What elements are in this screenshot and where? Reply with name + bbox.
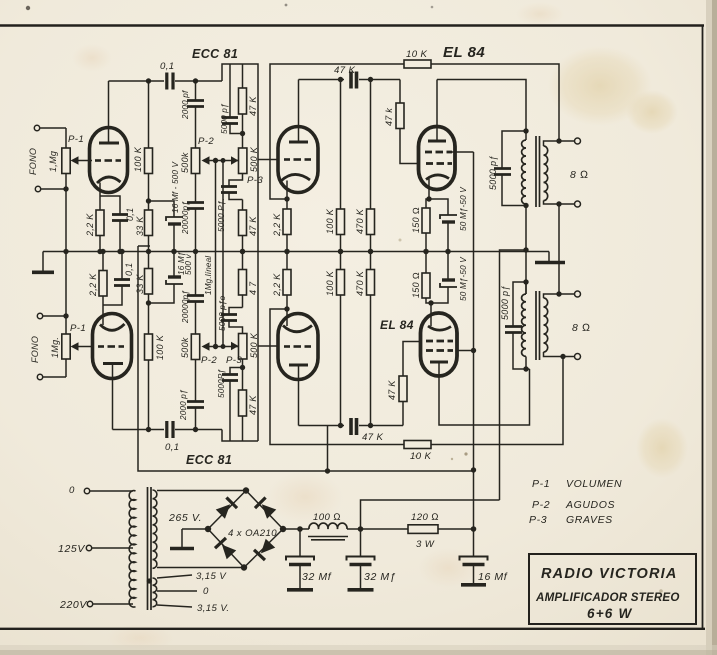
svg-text:P-1: P-1 (532, 478, 550, 490)
svg-text:5000 pƒ: 5000 pƒ (220, 103, 229, 134)
svg-text:FONO: FONO (28, 148, 38, 175)
node bridge bottom (241, 564, 247, 570)
stain center bottom (267, 471, 343, 523)
svg-text:ECC 81: ECC 81 (192, 47, 238, 61)
svg-text:P-3: P-3 (226, 355, 242, 366)
node top bus at 100K (146, 78, 151, 83)
input terminal B top (37, 313, 42, 318)
wire P-1 lower bottom (65, 359, 67, 377)
output transformer lower primary (522, 294, 526, 356)
capacitor 5000pf across primary lower (513, 282, 526, 326)
resistor 47K tone upper (242, 64, 244, 88)
svg-text:P-2: P-2 (532, 499, 550, 511)
V2b plate bus (299, 425, 345, 427)
wire P-1 bottom chain down (65, 174, 67, 335)
svg-text:16 Mf: 16 Mf (478, 571, 508, 583)
resistor 2,2K V1b cathode (99, 271, 107, 297)
primary B+ vertical between transformers (525, 206, 527, 295)
ground right (548, 252, 550, 262)
svg-text:2,2 K: 2,2 K (272, 213, 282, 237)
output transformer upper core (535, 136, 537, 207)
tube V1b ECC81 envelope (93, 314, 132, 379)
svg-text:AGUDOS: AGUDOS (565, 499, 615, 511)
power transformer T1 HT secondary winding (153, 490, 157, 568)
resistor 33K upper (145, 210, 153, 236)
ground bus (43, 251, 549, 253)
svg-text:33 K: 33 K (135, 216, 145, 236)
tube V1a anode (99, 142, 119, 145)
svg-text:2,2 K: 2,2 K (88, 273, 98, 297)
svg-text:2000 pƒ: 2000 pƒ (179, 389, 188, 421)
capacitor 16Mf 500V lower (149, 284, 175, 303)
svg-text:5000 Pƒ.: 5000 Pƒ. (217, 198, 226, 232)
tube EL84 lower grids (426, 340, 453, 343)
svg-text:AMPLIFICADOR STEREO: AMPLIFICADOR STEREO (535, 591, 680, 604)
wire grid V2a (258, 159, 278, 161)
svg-text:50 Mƒ-50 V: 50 Mƒ-50 V (459, 186, 468, 231)
stain top center (516, 2, 564, 26)
node top bus at 2000pf (193, 78, 198, 83)
svg-text:500 K: 500 K (249, 146, 259, 172)
capacitor 16Mf (473, 529, 475, 556)
node 16Mf (471, 526, 477, 532)
tube V1b anode (103, 362, 123, 365)
speaker terminal upper bottom (575, 201, 581, 207)
wire 120ohm to 16Mf node (438, 528, 474, 530)
svg-text:3 W: 3 W (416, 539, 435, 550)
svg-text:4 x OA210: 4 x OA210 (228, 528, 277, 539)
B+ feed corner (500, 250, 527, 500)
resistor 100K lower mid (337, 270, 345, 296)
resistor 33K lower (145, 269, 153, 295)
choke 100ohm winding (309, 523, 347, 529)
lower channel bus wire (113, 429, 165, 431)
wire EL84 plate to transformer (437, 80, 526, 132)
speck top left (26, 6, 30, 10)
svg-text:P-3: P-3 (529, 514, 547, 526)
wire P-3 gang vertical link (222, 161, 224, 347)
tube V2a grid (284, 158, 311, 161)
svg-text:8 Ω: 8 Ω (572, 322, 591, 334)
svg-text:100 K: 100 K (133, 146, 143, 172)
node bridge top (243, 487, 249, 493)
svg-text:47 K: 47 K (248, 96, 258, 116)
tube V1b grid (98, 345, 124, 348)
bridge edge top-right (246, 491, 283, 530)
resistor 100K V1b load (145, 334, 153, 360)
resistor 47K lower leg of tone upper (242, 200, 244, 211)
svg-text:150 Ω: 150 Ω (411, 272, 421, 298)
svg-text:100 K: 100 K (325, 208, 335, 234)
B+ screen vertical (473, 152, 475, 529)
tube V1a cathode (97, 177, 121, 183)
svg-text:50 Mƒ-50 V: 50 Mƒ-50 V (459, 256, 468, 301)
capacitor 20000pf upper (195, 174, 197, 203)
svg-text:10 K: 10 K (410, 451, 432, 462)
svg-text:1,Mg: 1,Mg (48, 151, 58, 172)
svg-text:2,2 K: 2,2 K (272, 273, 282, 297)
wire choke to 120ohm (347, 528, 408, 530)
svg-text:2,2 K: 2,2 K (85, 213, 95, 237)
svg-text:220V: 220V (59, 599, 87, 611)
stain top right small (626, 90, 678, 134)
screen feed wire upper (452, 151, 474, 153)
tone box top (222, 64, 258, 441)
resistor 47K hatched lower bus (349, 418, 353, 435)
tube EL84 lower cathode (428, 326, 451, 330)
diode D4 bottom-right (253, 538, 276, 561)
capacitor 16Mf-500V upper (149, 201, 175, 217)
wire heater tap 3,15V upper (157, 575, 192, 578)
capacitor 0,1 coupling upper (165, 73, 168, 90)
power transformer T1 core (147, 487, 149, 610)
svg-text:0,1: 0,1 (165, 442, 180, 453)
svg-text:470 K: 470 K (355, 270, 365, 296)
wire secondary return down (558, 204, 560, 294)
wire input A top (40, 127, 66, 129)
potentiometer P-3 upper 500K (239, 148, 247, 174)
resistor 470K upper mid (370, 80, 372, 210)
svg-text:P-1: P-1 (68, 134, 84, 145)
svg-text:GRAVES: GRAVES (566, 514, 613, 526)
tube V2a ECC81 envelope (278, 127, 318, 193)
svg-text:3,15 V: 3,15 V (196, 571, 227, 582)
svg-text:P-2: P-2 (201, 355, 217, 366)
svg-text:0: 0 (69, 485, 75, 496)
svg-text:20000pƒ: 20000pƒ (181, 290, 190, 324)
bottom page edge shading (0, 645, 717, 655)
right page edge shading (706, 0, 717, 655)
resistor 47K EL84 grid lower (402, 402, 404, 426)
stain mid left (72, 44, 112, 72)
power transformer T1 heater secondary winding (153, 578, 157, 607)
resistor 120ohm 3W (408, 525, 438, 534)
wire P-1 wiper to grid (79, 160, 93, 162)
potentiometer P-2 lower 500k (191, 334, 199, 360)
input terminal A top (34, 125, 39, 130)
capacitor 2000pf lower (195, 408, 197, 430)
svg-text:470 K: 470 K (355, 208, 365, 234)
B+ riser to lower plate bus (327, 426, 329, 472)
capacitor 0,1 V1a cathode bypass (100, 196, 120, 214)
wire P-1 lower wiper to grid (79, 346, 94, 348)
svg-text:100 Ω: 100 Ω (313, 512, 341, 523)
title box RADIO VICTORIA (529, 554, 696, 624)
svg-text:120 Ω: 120 Ω (411, 512, 439, 523)
wire heater tap 3,15V lower (157, 605, 192, 607)
tube V2a cathode (281, 174, 310, 181)
wire HT secondary top to bridge (157, 490, 246, 492)
tone box bottom (222, 430, 258, 442)
wire HT secondary bottom to bridge (157, 567, 244, 569)
svg-text:8 Ω: 8 Ω (570, 169, 589, 181)
diode D2 top-right (254, 496, 277, 519)
top bus wire (109, 80, 165, 82)
resistor 47K upper leg of tone lower (242, 295, 244, 308)
node P-1 at ground bus (63, 249, 68, 254)
output transformer upper secondary (544, 146, 548, 201)
node choke output (358, 526, 364, 532)
svg-text:47 K: 47 K (362, 432, 384, 443)
wire input B top (43, 315, 66, 317)
resistor 2,2K V2b cathode (283, 270, 291, 296)
svg-text:3,15 V.: 3,15 V. (197, 603, 230, 614)
svg-text:100 K: 100 K (155, 334, 165, 360)
wire heater tap 0 center (157, 590, 197, 592)
tube V2a anode (289, 141, 308, 144)
diode D1 top-left (215, 496, 238, 519)
svg-text:EL 84: EL 84 (380, 318, 414, 332)
potentiometer P-2 upper 500k (191, 148, 199, 174)
potentiometer P-3 lower 500K (239, 334, 247, 360)
wire 0 to transformer (90, 490, 133, 492)
svg-text:P-3: P-3 (247, 175, 263, 186)
capacitor 5000Pf below P-3 upper (229, 174, 243, 187)
feedback wire from 10K lower to V2b cathode (270, 309, 404, 445)
svg-text:FONO: FONO (30, 336, 40, 363)
svg-text:10 K: 10 K (406, 49, 428, 60)
svg-text:32 Mƒ: 32 Mƒ (364, 571, 396, 583)
wire bridge right to filter node (283, 528, 309, 530)
tube V2b grid (284, 345, 311, 348)
svg-text:RADIO VICTORIA: RADIO VICTORIA (541, 566, 678, 582)
tube EL84 upper cathode (426, 175, 449, 180)
svg-text:4 7: 4 7 (248, 281, 258, 295)
node bridge left (205, 526, 211, 532)
svg-text:VOLUMEN: VOLUMEN (566, 478, 622, 490)
svg-text:0,1: 0,1 (160, 61, 175, 72)
output transformer upper primary (522, 140, 526, 204)
bridge edge bottom-right (244, 529, 283, 568)
svg-text:47 k: 47 k (384, 108, 394, 126)
resistor 470K lower mid (367, 270, 375, 296)
wire P-2 wiper link (210, 160, 239, 162)
feedback wire from 10K to V2a cathode (270, 64, 404, 199)
wire grid V2b (258, 345, 278, 347)
svg-text:0: 0 (203, 586, 209, 597)
wire secondary bottom to speaker terminal (544, 201, 575, 205)
stain top right large (548, 46, 652, 126)
resistor 10K feedback upper (404, 60, 431, 68)
junction on transformer core (147, 578, 152, 583)
svg-text:2000 pf: 2000 pf (181, 90, 190, 120)
capacitor 5000pf tone upper (229, 64, 231, 117)
resistor 150ohm lower (426, 298, 431, 303)
svg-text:47 K: 47 K (248, 216, 258, 236)
svg-text:47 K: 47 K (334, 65, 356, 76)
wire input A bottom (41, 188, 66, 190)
tube V1a ECC81 triode envelope (90, 128, 128, 193)
capacitor 2000pf upper (195, 81, 197, 100)
wire B+ riser from choke node (361, 500, 500, 529)
capacitor 32Mf no.1 (299, 529, 301, 556)
svg-text:500 v: 500 v (184, 253, 193, 275)
input terminal A bottom (35, 186, 40, 191)
svg-text:EL 84: EL 84 (443, 44, 485, 61)
svg-text:47 K: 47 K (248, 395, 258, 415)
stain right mid (636, 418, 688, 478)
potentiometer P-1 lower 1Mg (62, 334, 70, 359)
svg-text:100 K: 100 K (325, 270, 335, 296)
tube EL84 lower anode (430, 361, 448, 364)
capacitor 20000pf lower (195, 252, 197, 296)
wire wiper link vertical to lower channel (215, 161, 217, 347)
tube V1b cathode (100, 324, 125, 330)
input terminal B bottom (37, 374, 42, 379)
svg-text:6+6 W: 6+6 W (587, 606, 632, 621)
capacitor 50Mf-50V lower (431, 287, 448, 303)
node bridge right (280, 526, 286, 532)
resistor 47K hatched on plate bus (349, 72, 353, 89)
svg-text:0,1: 0,1 (124, 263, 134, 276)
resistor 47k EL84 grid upper (399, 80, 401, 104)
border top rule (0, 24, 704, 27)
tube EL84 upper grids (425, 151, 452, 154)
resistor 100K upper mid (340, 80, 342, 210)
tube V2b anode (289, 364, 308, 367)
capacitor 50Mf-50V upper (429, 199, 448, 215)
wire secondary lower top to speaker (544, 294, 575, 298)
mains terminal 220V (87, 601, 92, 606)
svg-text:500k: 500k (180, 152, 190, 173)
border right rule (702, 25, 704, 629)
wire bridge left to PSU ground (182, 528, 208, 530)
wire secondary top to speaker terminal (544, 141, 575, 146)
svg-text:500k: 500k (180, 337, 190, 358)
mains terminal 0 (84, 488, 89, 493)
tube EL84 upper anode (428, 140, 446, 143)
svg-text:5000 pƒ: 5000 pƒ (500, 285, 510, 320)
choke core lines (308, 536, 348, 538)
tube V2b ECC81 envelope (278, 314, 318, 380)
svg-text:5000Pƒ: 5000Pƒ (217, 369, 226, 398)
border bottom rule (0, 628, 705, 630)
node P-1 lower terminal (63, 186, 68, 191)
speaker terminal lower bottom (575, 354, 581, 360)
tube EL84 upper envelope (419, 127, 456, 190)
speaker terminal upper top (575, 138, 581, 144)
svg-text:5000 pƒo: 5000 pƒo (218, 295, 227, 331)
stain bottom mid (418, 548, 478, 588)
mains terminal 125V (86, 545, 91, 550)
wire to P-1 top (65, 128, 67, 148)
speck top mid (285, 4, 288, 7)
svg-text:P-2: P-2 (198, 136, 214, 147)
svg-text:16 Mf - 500 V: 16 Mf - 500 V (171, 161, 180, 213)
wire input B bottom (43, 376, 66, 378)
svg-text:32 Mf: 32 Mf (302, 571, 332, 583)
wire 220V to transformer (93, 603, 133, 605)
B+ distribution line (138, 245, 150, 247)
resistor 47K tone lower (242, 416, 244, 441)
tube V1a grid (95, 159, 121, 162)
resistor 2,2K V2a cathode (283, 209, 291, 235)
stain bottom left (106, 624, 174, 652)
svg-text:20000pƒ: 20000pƒ (181, 201, 190, 235)
capacitor 5000pf across primary upper (502, 131, 526, 168)
capacitor 5000Pf tone lower (229, 381, 231, 441)
wire P-2 lower wiper link (210, 346, 239, 348)
node input B top (63, 313, 68, 318)
speck top (431, 6, 434, 9)
svg-text:P-1: P-1 (70, 323, 86, 334)
diode D3 bottom-left (214, 537, 237, 560)
tube V2b cathode (283, 326, 312, 332)
wire secondary lower bottom to speaker (544, 352, 575, 357)
node bus at 2000pf lower (193, 427, 198, 432)
resistor 2,2K V1a cathode (96, 210, 104, 236)
node 32Mf no.1 (297, 526, 303, 532)
svg-text:33 K: 33 K (135, 274, 145, 294)
speck mid right (464, 452, 467, 455)
svg-text:125V: 125V (58, 543, 85, 555)
PSU ground (181, 529, 183, 547)
tube EL84 lower envelope (421, 313, 458, 376)
svg-text:0,1: 0,1 (125, 208, 135, 221)
power transformer T1 primary winding (129, 491, 135, 607)
ground left (42, 252, 44, 272)
output transformer lower core (535, 291, 537, 360)
V2a plate bus (299, 79, 345, 81)
svg-text:1Mg.líneal: 1Mg.líneal (204, 256, 213, 295)
speaker terminal lower top (575, 291, 581, 297)
svg-text:5000 pƒ: 5000 pƒ (488, 155, 498, 190)
capacitor 0,1 V1b bypass (103, 286, 122, 305)
screen feed wire lower (457, 350, 474, 352)
potentiometer P-1 upper 1Mg (62, 148, 70, 174)
capacitor 5000ps above P-3 lower (229, 321, 243, 334)
wire EL84 lower plate to transformer (439, 362, 530, 425)
resistor 10K feedback lower (404, 441, 431, 449)
svg-text:500 K: 500 K (249, 332, 259, 358)
wire 125V to transformer (92, 547, 133, 549)
bridge edge top-left (208, 491, 246, 530)
svg-text:150 Ω: 150 Ω (411, 207, 421, 233)
capacitor 0,1 coupling lower (165, 421, 168, 438)
svg-text:265 V.: 265 V. (168, 512, 202, 524)
svg-text:1Mg.: 1Mg. (50, 337, 60, 358)
svg-text:47 K: 47 K (387, 380, 397, 400)
capacitor 32Mf no.2 (360, 529, 362, 556)
resistor 150ohm upper (426, 199, 429, 208)
bridge edge bottom-left (208, 529, 244, 568)
resistor 100K V1a load (148, 81, 150, 148)
svg-text:ECC 81: ECC 81 (186, 453, 232, 467)
output transformer lower secondary (544, 298, 548, 352)
